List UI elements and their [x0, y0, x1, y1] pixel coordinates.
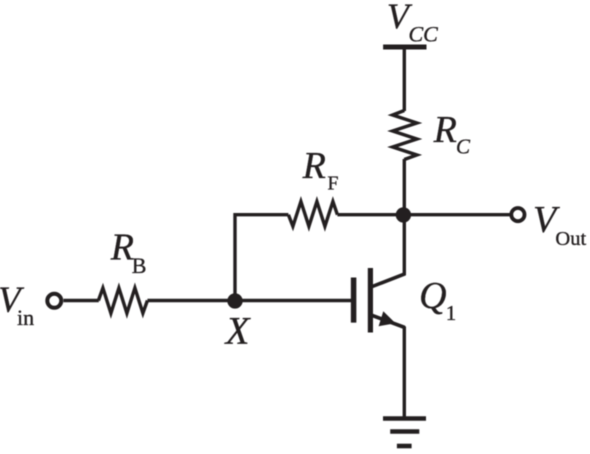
svg-text:F: F [327, 173, 338, 195]
wire emitter to ground [403, 327, 406, 419]
svg-text:Q: Q [419, 275, 446, 317]
svg-text:B: B [132, 253, 147, 278]
wire RC bottom to output node [403, 159, 406, 216]
ground bar 2 [390, 429, 419, 434]
resistor RB [98, 288, 147, 313]
terminal Vout [511, 208, 524, 221]
resistor RF [288, 202, 337, 227]
wire output node to Vout terminal [404, 213, 511, 216]
svg-text:R: R [110, 226, 134, 268]
svg-text:R: R [433, 109, 457, 151]
wire feedback corner: vertical from node X up, then right to RF [235, 215, 288, 301]
svg-text:in: in [17, 305, 34, 330]
wire RF right to output node [337, 213, 404, 216]
wire VCC bar to RC top [403, 47, 406, 111]
svg-text:C: C [456, 135, 471, 159]
terminal Vin [47, 294, 61, 308]
transistor Q1 body bar [368, 268, 373, 333]
wire output node to collector [403, 215, 406, 276]
svg-text:X: X [224, 310, 252, 353]
transistor Q1 gate bar [351, 278, 357, 323]
svg-text:Out: Out [555, 228, 586, 250]
node X junction [227, 293, 242, 308]
supply rail VCC bar [383, 45, 426, 50]
wire Vin terminal to RB [64, 299, 99, 302]
svg-text:1: 1 [446, 301, 457, 325]
transistor Q1 emitter arrowhead [379, 311, 396, 326]
svg-text:CC: CC [409, 22, 439, 47]
transistor Q1 emitter diagonal [371, 315, 405, 328]
svg-text:R: R [302, 145, 326, 187]
ground bar 1 [383, 416, 426, 421]
resistor RC [393, 111, 417, 160]
transistor Q1 collector diagonal [371, 274, 405, 287]
wire RB to transistor base [147, 299, 351, 302]
node at collector/output junction [396, 207, 411, 222]
ground bar 3 [397, 444, 412, 449]
